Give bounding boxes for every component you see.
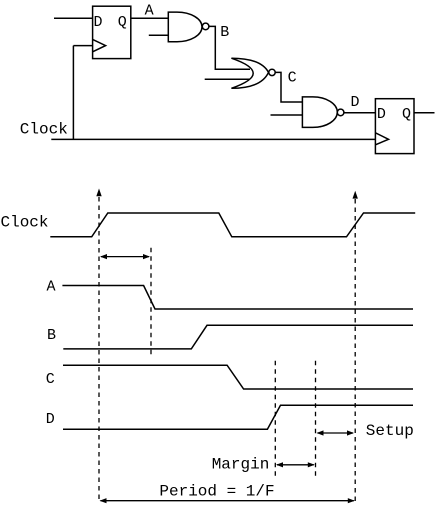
svg-text:C: C xyxy=(46,371,55,388)
svg-text:Period = 1/F: Period = 1/F xyxy=(159,483,274,501)
svg-text:Setup: Setup xyxy=(366,422,414,440)
svg-text:Q: Q xyxy=(118,14,127,31)
svg-text:B: B xyxy=(220,24,229,41)
svg-text:A: A xyxy=(145,2,154,19)
svg-text:Clock: Clock xyxy=(20,121,68,139)
svg-text:Margin: Margin xyxy=(212,455,270,473)
svg-text:A: A xyxy=(47,278,56,295)
svg-text:Clock: Clock xyxy=(1,213,49,231)
svg-text:D: D xyxy=(46,411,55,428)
svg-text:B: B xyxy=(47,327,56,344)
svg-text:D: D xyxy=(377,106,386,123)
svg-text:C: C xyxy=(288,70,297,87)
svg-text:Q: Q xyxy=(402,106,411,123)
svg-text:D: D xyxy=(94,14,103,31)
svg-text:D: D xyxy=(351,94,360,111)
